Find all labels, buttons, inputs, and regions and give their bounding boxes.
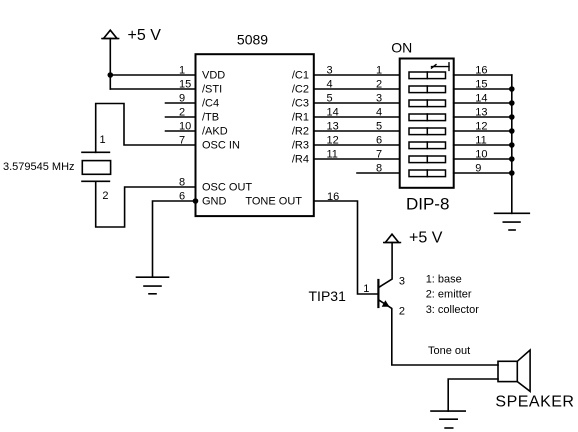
IC U1 5089 box: [196, 54, 314, 216]
svg-text:SPEAKER: SPEAKER: [495, 394, 574, 411]
wire TONE OUT pin 16 to transistor base: [314, 201, 378, 294]
DIP switch row 3: [409, 100, 446, 107]
svg-text:2: emitter: 2: emitter: [426, 289, 472, 301]
crystal X1 wire to OSC OUT pin 8: [96, 181, 196, 227]
svg-text:Tone out: Tone out: [428, 345, 470, 357]
junction dot GND pin: [193, 198, 199, 204]
svg-text:6: 6: [376, 134, 382, 146]
power +5V symbol (transistor): [384, 234, 401, 242]
DIP switch row 6: [409, 142, 446, 149]
svg-text:/R3: /R3: [292, 140, 309, 152]
pin stub /TB pin 2: [166, 116, 196, 118]
pin stub /AKD pin 10: [166, 130, 196, 132]
svg-text:3: collector: 3: collector: [426, 304, 480, 316]
svg-text:OSC OUT: OSC OUT: [202, 182, 252, 194]
DIP switch row 5: [409, 128, 446, 135]
svg-text:/C4: /C4: [202, 98, 219, 110]
ground (left, crystal/GND): [137, 277, 169, 294]
svg-text:9: 9: [475, 162, 481, 174]
svg-text:/AKD: /AKD: [202, 126, 228, 138]
wire speaker return to ground: [448, 379, 498, 411]
wire +5V rail down to /STI row: [109, 39, 111, 90]
junction dot bus row 15: [509, 86, 515, 92]
svg-text:/C2: /C2: [292, 84, 309, 96]
wire GND pin 6 to ground: [153, 201, 196, 277]
wire /C3 pin 5 to DIP pin 3: [314, 102, 400, 104]
junction dot +5V/VDD: [108, 72, 114, 78]
pin stub /C4 pin 9: [166, 102, 196, 104]
svg-text:/R4: /R4: [292, 154, 309, 166]
wire /R3 pin 12 to DIP pin 6: [314, 144, 400, 146]
svg-text:8: 8: [179, 176, 185, 188]
svg-text:9: 9: [179, 92, 185, 104]
stub DIP pin 8: [357, 172, 400, 174]
svg-text:4: 4: [376, 106, 382, 118]
wire DIP pin 12 to bus: [454, 130, 512, 132]
svg-text:DIP-8: DIP-8: [406, 195, 449, 214]
junction dot bus row 9: [509, 170, 515, 176]
wire VDD pin 1: [110, 74, 195, 76]
junction dot bus row 10: [509, 156, 515, 162]
svg-text:TONE OUT: TONE OUT: [245, 196, 302, 208]
svg-text:15: 15: [475, 78, 487, 90]
svg-text:1: base: 1: base: [426, 273, 462, 285]
svg-text:16: 16: [327, 191, 339, 203]
junction dot bus row 14: [509, 100, 515, 106]
svg-text:5089: 5089: [237, 31, 268, 47]
wire /R4 pin 11 to DIP pin 7: [314, 158, 400, 160]
svg-text:/C3: /C3: [292, 98, 309, 110]
speaker LS1 box: [498, 361, 517, 381]
transistor Q1 emitter lead: [379, 300, 498, 365]
svg-text:+5 V: +5 V: [409, 230, 443, 247]
DIP switch row 4: [409, 114, 446, 121]
svg-text:7: 7: [179, 134, 185, 146]
transistor Q1 collector lead: [379, 243, 392, 288]
wire DIP pin 11 to bus: [454, 144, 512, 146]
svg-text:/C1: /C1: [292, 70, 309, 82]
svg-text:3: 3: [327, 64, 333, 76]
svg-text:7: 7: [376, 148, 382, 160]
svg-text:10: 10: [179, 120, 191, 132]
svg-text:5: 5: [327, 92, 333, 104]
svg-text:1: 1: [376, 64, 382, 76]
transistor Q1 TIP31 base bar: [377, 280, 379, 307]
svg-text:11: 11: [475, 134, 486, 146]
crystal X1 body: [82, 161, 110, 175]
svg-text:TIP31: TIP31: [309, 288, 347, 304]
svg-text:1: 1: [363, 283, 369, 295]
svg-text:1: 1: [179, 64, 185, 76]
junction dot bus row 12: [509, 128, 515, 134]
svg-text:2: 2: [399, 305, 405, 317]
wire DIP pin 15 to bus: [454, 88, 512, 90]
wire /R1 pin 14 to DIP pin 4: [314, 116, 400, 118]
svg-text:6: 6: [179, 190, 185, 202]
wire /STI pin 15: [110, 88, 195, 90]
ground bus wire (right): [511, 75, 513, 213]
DIP switch position-1 marker (rotated 1): [432, 63, 450, 71]
svg-text:ON: ON: [391, 40, 412, 56]
DIP-8 switch S1 box: [400, 59, 454, 188]
svg-text:3: 3: [399, 275, 405, 287]
wire DIP pin 10 to bus: [454, 158, 512, 160]
svg-text:16: 16: [475, 64, 487, 76]
DIP switch row 2: [409, 86, 446, 93]
svg-text:1: 1: [100, 134, 106, 146]
svg-text:/R2: /R2: [292, 126, 309, 138]
svg-text:12: 12: [475, 120, 487, 132]
power +5V symbol (top left): [102, 30, 119, 38]
ground (right, DIP bus): [495, 213, 530, 230]
svg-text:3: 3: [376, 92, 382, 104]
svg-text:12: 12: [327, 134, 339, 146]
junction dot bus row 13: [509, 114, 515, 120]
wire /C1 pin 3 to DIP pin 1: [314, 74, 400, 76]
svg-text:14: 14: [327, 106, 339, 118]
wire DIP pin 9 to bus: [454, 172, 512, 174]
svg-text:2: 2: [102, 190, 108, 202]
svg-text:2: 2: [179, 106, 185, 118]
svg-text:8: 8: [376, 162, 382, 174]
svg-text:10: 10: [475, 148, 487, 160]
svg-text:13: 13: [475, 106, 487, 118]
wire /C2 pin 4 to DIP pin 2: [314, 88, 400, 90]
wire DIP pin 16 to bus: [454, 74, 512, 76]
svg-text:14: 14: [475, 92, 487, 104]
wire DIP pin 14 to bus: [454, 102, 512, 104]
svg-text:11: 11: [327, 148, 338, 160]
transistor Q1 emitter arrowhead: [382, 300, 390, 307]
svg-text:VDD: VDD: [202, 70, 225, 82]
svg-text:/STI: /STI: [202, 84, 222, 96]
speaker LS1 horn: [517, 350, 530, 391]
junction dot bus row 11: [509, 142, 515, 148]
svg-text:/R1: /R1: [292, 112, 309, 124]
svg-text:+5 V: +5 V: [128, 27, 162, 44]
DIP switch row 8: [409, 170, 446, 177]
svg-text:13: 13: [327, 120, 339, 132]
svg-text:2: 2: [376, 78, 382, 90]
ground (bottom, speaker): [431, 411, 465, 428]
wire /R2 pin 13 to DIP pin 5: [314, 130, 400, 132]
svg-text:5: 5: [376, 120, 382, 132]
DIP switch row 1: [409, 72, 446, 79]
svg-text:GND: GND: [202, 196, 227, 208]
svg-text:OSC IN: OSC IN: [202, 140, 240, 152]
svg-text:3.579545 MHz: 3.579545 MHz: [3, 161, 75, 173]
wire DIP pin 13 to bus: [454, 116, 512, 118]
svg-text:4: 4: [327, 78, 333, 90]
svg-text:/TB: /TB: [202, 112, 219, 124]
svg-text:15: 15: [179, 78, 191, 90]
crystal X1 top plate: [82, 151, 109, 153]
DIP switch row 7: [409, 156, 446, 163]
crystal X1 bottom plate: [82, 180, 109, 182]
crystal X1 wire to OSC IN pin 7: [96, 104, 196, 153]
